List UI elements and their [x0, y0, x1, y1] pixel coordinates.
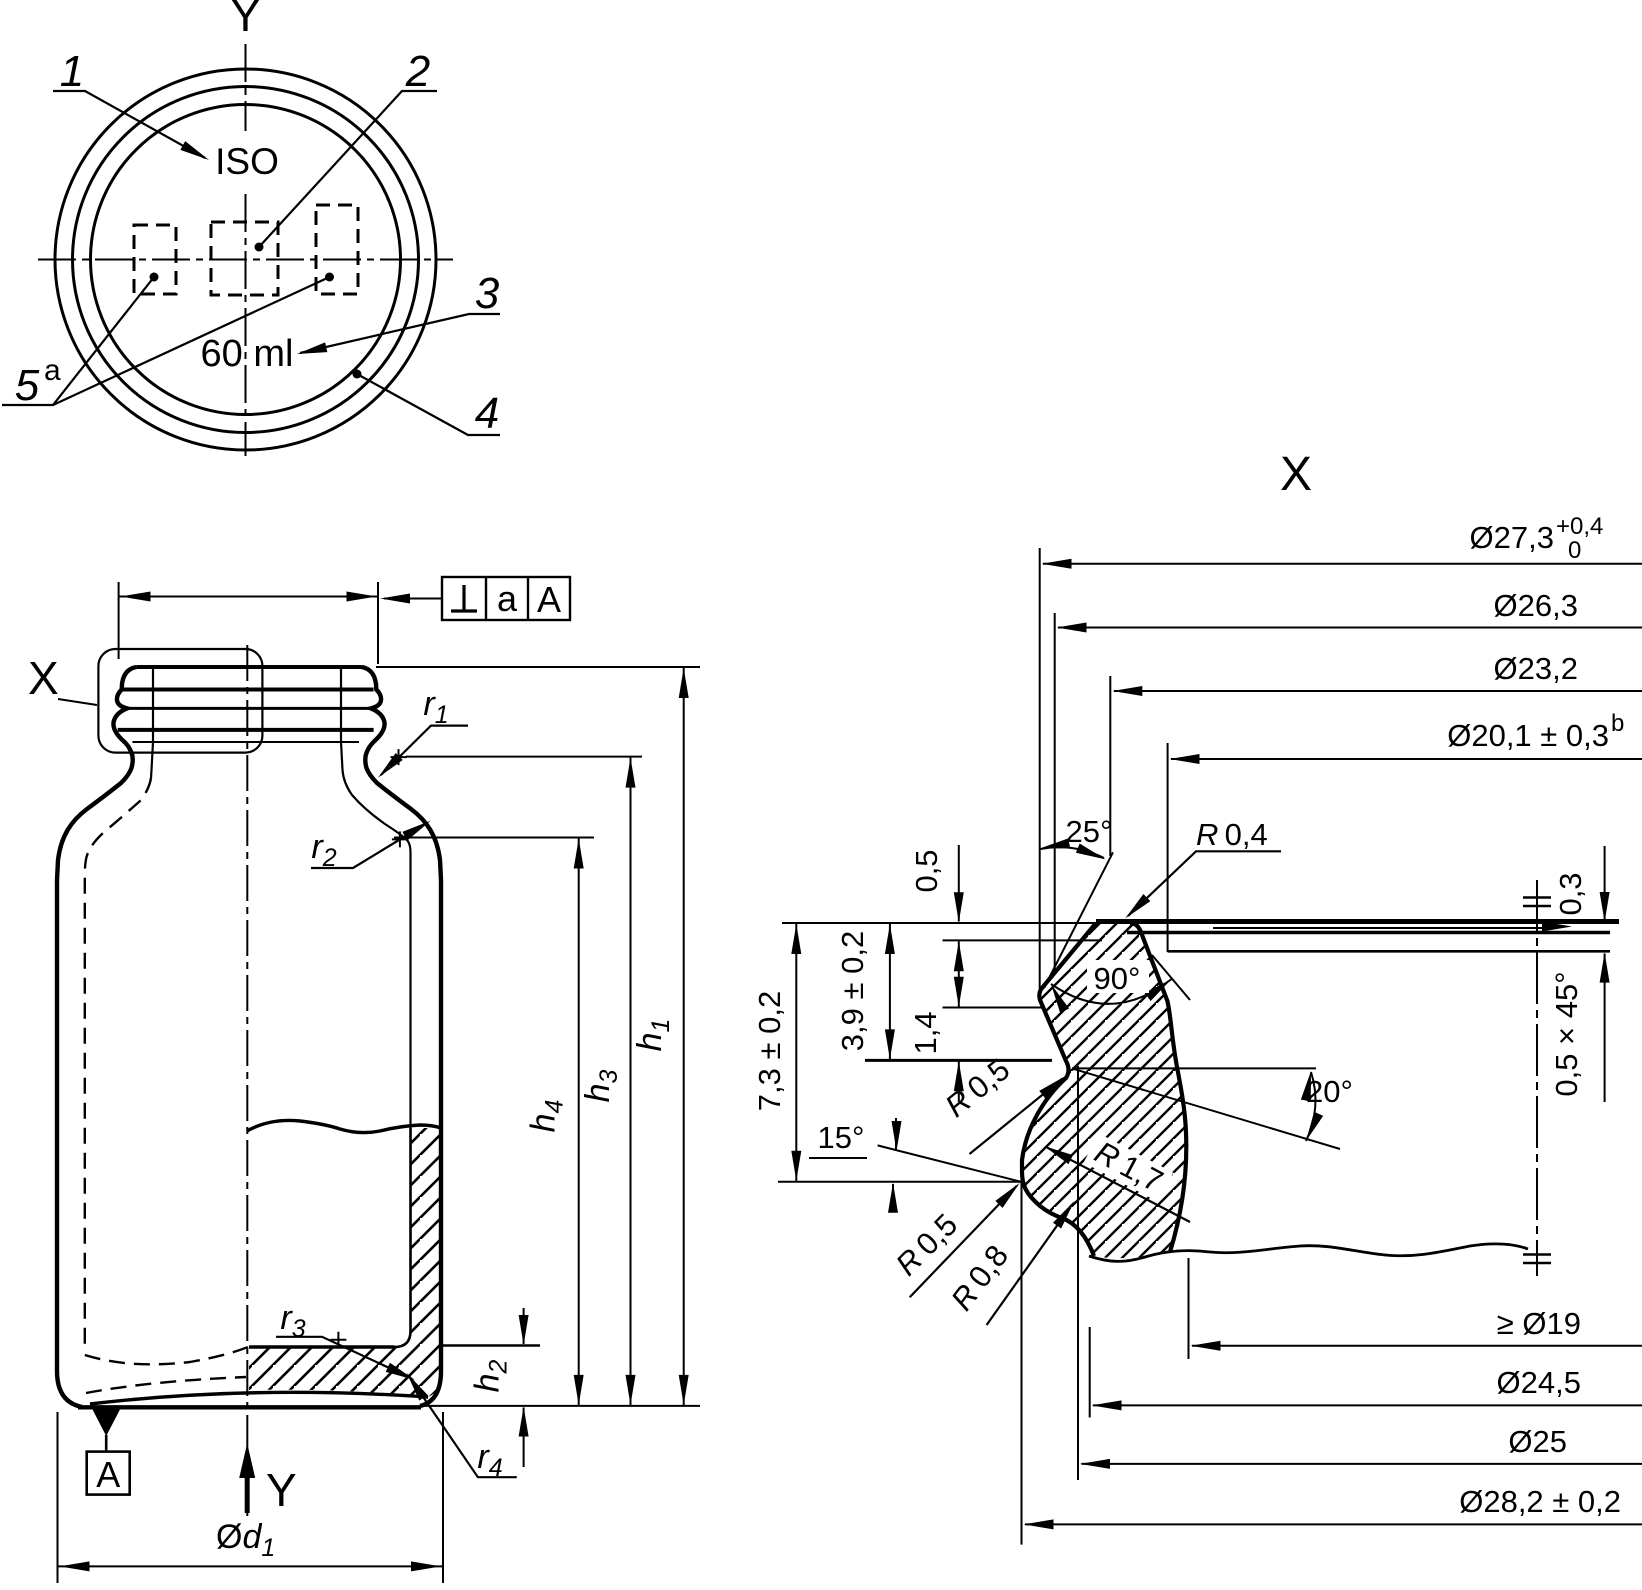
- svg-text:+0,4: +0,4: [1556, 513, 1603, 540]
- svg-text:0,5: 0,5: [909, 849, 944, 892]
- countersink edge line: [1168, 950, 1610, 953]
- finish line 2: [120, 688, 373, 692]
- svg-text:Y: Y: [266, 1464, 297, 1516]
- svg-text:0,3: 0,3: [1553, 872, 1588, 915]
- svg-text:Ø20,1 ± 0,3: Ø20,1 ± 0,3: [1447, 718, 1609, 753]
- hidden push-up inner (dashed): [86, 1377, 246, 1393]
- svg-text:≥ Ø19: ≥ Ø19: [1497, 1306, 1581, 1341]
- R0,8 label: [944, 1239, 1015, 1317]
- 7,3 dimension: [795, 923, 797, 1182]
- svg-text:R 0,4: R 0,4: [1196, 817, 1268, 852]
- svg-text:60 ml: 60 ml: [201, 333, 294, 375]
- bottle outer profile left: [57, 667, 137, 1407]
- svg-text:Ø23,2: Ø23,2: [1494, 651, 1578, 686]
- chamfer edge line: [1127, 931, 1610, 935]
- svg-text:Ø24,5: Ø24,5: [1497, 1365, 1581, 1400]
- vial axis centerline: [1536, 880, 1538, 1276]
- svg-text:X: X: [28, 652, 59, 704]
- push-up outer curve: [90, 1392, 428, 1404]
- inner neck line left (thin solid above hidden): [151, 742, 153, 778]
- wire: second leader of 5a: [53, 277, 330, 405]
- thin line under top (chamfer ref): [1213, 927, 1556, 929]
- feature control frame (perpendicularity a A): [442, 577, 570, 620]
- h3 extension line: [406, 756, 642, 758]
- 3,9 lower reference line (groove top): [865, 1059, 1052, 1062]
- diameter dimension Ø23,2: [1109, 676, 1111, 856]
- diameter dimension Ø28,2: [1021, 1172, 1023, 1545]
- svg-text:Ø26,3: Ø26,3: [1494, 588, 1578, 623]
- 0,3 dimension (right): [1604, 846, 1606, 921]
- R0,5 lower label: [889, 1207, 964, 1282]
- 0,5 / 1,4 dimension line: [958, 845, 960, 922]
- d1 dimension: [57, 1412, 59, 1583]
- 90 degree stub right: [1152, 955, 1190, 1000]
- section outline right (chamfer + bore): [1130, 923, 1186, 1252]
- R1,7 label: [1084, 1132, 1175, 1202]
- detail X indicator box: [98, 649, 262, 753]
- r3 centre cross: [330, 1332, 346, 1348]
- svg-text:90°: 90°: [1094, 961, 1141, 996]
- h4 extension line: [394, 837, 594, 839]
- axis break ticks bottom: [1523, 1255, 1551, 1264]
- finish sealing surface top line: [137, 665, 362, 669]
- base line: [78, 1405, 421, 1409]
- 25 degree arc: [1041, 847, 1105, 858]
- finish line 4 (bead bottom): [118, 728, 374, 732]
- svg-text:7,3 ± 0,2: 7,3 ± 0,2: [752, 991, 787, 1111]
- dashed rectangle marking (right): [316, 205, 358, 294]
- base extension line: [422, 1405, 700, 1407]
- svg-text:Ø28,2 ± 0,2: Ø28,2 ± 0,2: [1459, 1484, 1621, 1519]
- section outline left (flange, groove, bead, neck): [1022, 923, 1096, 1256]
- inner neck line right (thin solid): [341, 742, 411, 1128]
- 25 degree face extension line: [1044, 852, 1113, 988]
- dashed rectangle marking (left): [134, 225, 176, 294]
- svg-text:15°: 15°: [818, 1120, 865, 1155]
- h2 upper extension line: [443, 1344, 540, 1347]
- svg-text:5: 5: [15, 361, 40, 410]
- svg-text:Y: Y: [230, 0, 261, 41]
- datum A filled triangle: [92, 1409, 121, 1437]
- section hatch fill: [1022, 923, 1186, 1258]
- hidden inner bottom left (dashed): [85, 1347, 248, 1364]
- 20 degree sloped line: [1072, 1068, 1340, 1149]
- R0,5 upper label (groove radius): [939, 1052, 1017, 1124]
- inner bottom line (section): [249, 1345, 395, 1349]
- svg-text:0: 0: [1568, 537, 1581, 564]
- svg-text:ISO: ISO: [215, 141, 279, 182]
- h1 dimension: [683, 667, 685, 1406]
- svg-text:25°: 25°: [1066, 814, 1113, 849]
- inner wall below break (hatch boundary): [395, 1128, 411, 1347]
- top dimension extension lines: [118, 582, 120, 659]
- 7,3 lower reference line: [778, 1181, 1021, 1183]
- inner circle: [91, 105, 401, 415]
- outer circle (flange Ø): [55, 69, 436, 450]
- hidden inner wall left (dashed): [85, 778, 151, 1352]
- middle circle: [73, 87, 419, 433]
- svg-text:20°: 20°: [1306, 1074, 1353, 1109]
- svg-text:Ø25: Ø25: [1508, 1424, 1567, 1459]
- diameter dimension Ø25: [1077, 1066, 1079, 1480]
- svg-text:Ø27,3: Ø27,3: [1470, 520, 1554, 555]
- svg-text:2: 2: [405, 47, 430, 96]
- bore edge line right: [340, 668, 342, 742]
- svg-text:4: 4: [475, 389, 499, 438]
- svg-text:X: X: [1280, 448, 1312, 501]
- bottom wavy break line: [1089, 1244, 1528, 1262]
- 15 degree reference stub: [809, 1157, 867, 1159]
- svg-text:3,9 ± 0,2: 3,9 ± 0,2: [835, 931, 870, 1051]
- diameter dimension Ø27,3: [1039, 548, 1041, 995]
- 20 degree arc: [1306, 1072, 1315, 1141]
- diameter dimension Ø20,1: [1167, 743, 1169, 952]
- horizontal centerline: [38, 259, 453, 261]
- r2 centre cross: [392, 831, 408, 847]
- top dimension line: [119, 596, 378, 598]
- h1 extension line (top): [376, 666, 700, 668]
- 15 degree arc arrows: [895, 1118, 897, 1149]
- left reference line at top level: [782, 922, 1096, 924]
- h2 dimension: [523, 1308, 525, 1344]
- h4 dimension: [578, 838, 580, 1406]
- groove reference line (20 deg base): [1072, 1067, 1316, 1069]
- 1,4 upper reference line (flange bottom): [943, 1007, 1045, 1009]
- section hatch: right wall and bottom: [249, 1128, 441, 1397]
- svg-text:a: a: [44, 354, 61, 387]
- svg-text:b: b: [1611, 710, 1624, 737]
- 15 degree sloped line: [878, 1145, 1021, 1181]
- svg-text:0,5 × 45°: 0,5 × 45°: [1549, 971, 1584, 1096]
- bottle outer profile right: [362, 667, 442, 1406]
- finish line 3: [123, 707, 371, 710]
- svg-text:1: 1: [60, 47, 84, 96]
- diameter dimension Ø24,5: [1089, 1327, 1091, 1418]
- dashed rectangle marking (centre): [211, 222, 278, 295]
- diameter dimension >= Ø19: [1188, 1258, 1190, 1359]
- 90 degree arc: [1051, 979, 1172, 1004]
- 3,9 dimension: [889, 923, 891, 1060]
- 0,5 lower reference line: [943, 939, 1103, 941]
- svg-text:a: a: [497, 578, 518, 619]
- Y axis arrow (bottom): [245, 1458, 250, 1513]
- leader from feature control frame: [384, 598, 442, 600]
- axis break ticks top: [1523, 898, 1551, 907]
- break / fill level wavy line: [247, 1120, 441, 1132]
- bore edge line left: [152, 668, 154, 742]
- diameter dimension Ø26,3: [1054, 613, 1056, 970]
- svg-text:A: A: [96, 1454, 120, 1495]
- sealing surface top line: [1096, 919, 1619, 924]
- vertical centerline Y axis: [245, 44, 247, 131]
- r1 centre cross: [391, 749, 407, 765]
- h3 dimension: [630, 757, 632, 1406]
- vial centerline: [246, 645, 248, 1516]
- svg-text:A: A: [537, 579, 561, 620]
- svg-text:3: 3: [475, 269, 500, 318]
- svg-text:1,4: 1,4: [908, 1011, 943, 1054]
- finish thin line below bead: [132, 741, 359, 743]
